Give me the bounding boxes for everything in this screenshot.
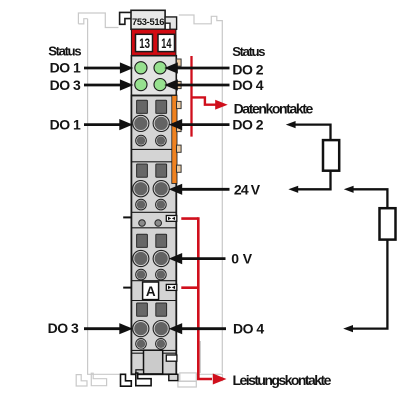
red power contact rail line (198, 217, 212, 379)
LED DO2 (154, 62, 166, 74)
terminal section 1 clamp openings (137, 100, 167, 113)
terminal number box 13 (136, 34, 153, 51)
svg-text:Status: Status (232, 44, 265, 59)
section 1 small openings (136, 135, 167, 146)
svg-text:Leistungskontakte: Leistungskontakte (233, 372, 332, 388)
resistor load 2 (380, 208, 396, 239)
svg-text:DO 4: DO 4 (233, 321, 264, 337)
svg-text:24 V: 24 V (234, 181, 261, 197)
ghost outline: left neighbor right edge (87, 19, 89, 375)
data contact tabs (177, 59, 182, 172)
red Leistungskontakte arrowhead (213, 374, 227, 385)
wire status DO2 (right) (178, 67, 230, 70)
red terminal number block (131, 29, 176, 55)
svg-text:DO 2: DO 2 (232, 62, 263, 78)
address box A (143, 282, 159, 300)
red Datenkontakte arrow (192, 97, 217, 104)
svg-text:DO 3: DO 3 (48, 320, 79, 336)
terminal section 3 clamp openings (137, 234, 167, 247)
load branch 1 wire from DO2 (295, 125, 331, 141)
LED DO3 (135, 79, 147, 91)
terminal DO2 wire entry (big circle right, section 1) (153, 115, 169, 131)
svg-text:A: A (146, 284, 156, 299)
terminal 24V wire entries (big circles, section 2) (133, 181, 170, 197)
orange bus strip (172, 96, 177, 184)
svg-text:Status: Status (48, 43, 81, 58)
load branch 2 wire from 24V (353, 189, 388, 208)
load branch 2 wire to DO4 (352, 240, 387, 329)
terminal section 2 clamp openings (137, 164, 167, 177)
section 4 small openings (136, 339, 167, 350)
red power contact line upper branch (181, 217, 198, 220)
wire status DO3 (left) (84, 84, 121, 87)
red power contact line lower branch (181, 286, 198, 289)
ghost outline: right neighbor module top (179, 15, 223, 373)
terminal DO1 wire entry (big circle left, section 1) (133, 115, 149, 131)
module label plate (131, 10, 165, 29)
wire 0V terminal (right) (182, 257, 226, 260)
wire status DO1 (left) (84, 67, 121, 70)
section 2 small openings (136, 199, 167, 210)
wire DO1 terminal (left) (84, 123, 120, 126)
svg-text:753-516: 753-516 (132, 16, 164, 27)
module top-left mounting tab (120, 12, 132, 24)
module top-right mounting tab (165, 17, 177, 29)
svg-text:DO 1: DO 1 (50, 117, 81, 133)
left mounting foot (121, 374, 132, 386)
wire DO3 terminal (left) (84, 327, 120, 330)
section 3 small openings (136, 269, 167, 280)
ghost outline: right neighbor foot (178, 341, 223, 387)
ghost outline: left neighbor foot (76, 373, 119, 386)
wire status DO4 (right) (178, 84, 230, 87)
resistor load 1 (323, 140, 339, 171)
power jumper contact icon (lower) (166, 284, 177, 290)
svg-text:DO 3: DO 3 (50, 77, 81, 93)
body divider lines (131, 149, 176, 353)
svg-text:DO 4: DO 4 (232, 77, 263, 93)
terminal DO3 / DO4 wire entries (big circles, section 4) (133, 321, 170, 337)
wire 24V terminal (right) (182, 188, 230, 191)
ghost outline: left neighbor module top (78, 13, 118, 28)
load branch 1 wire to 24V (298, 171, 331, 190)
LED DO4 (154, 79, 166, 91)
wire DO4 terminal (right) (182, 327, 226, 330)
center mounting foot (136, 373, 151, 386)
power jumper contact icon (upper) (166, 216, 177, 222)
rail lock block (144, 350, 163, 374)
jumper bore circles (139, 220, 162, 227)
svg-text:Datenkontakte: Datenkontakte (234, 100, 314, 116)
svg-text:DO 1: DO 1 (50, 59, 81, 75)
svg-text:0 V: 0 V (231, 251, 253, 267)
right mounting foot (169, 374, 178, 380)
svg-text:14: 14 (161, 36, 172, 51)
terminal 0V wire entries (big circles, section 3) (133, 250, 170, 266)
latch notch (166, 355, 177, 361)
terminal section 4 clamp openings (137, 303, 167, 316)
module body (131, 96, 176, 375)
left power jumper contact tick (upper) (123, 216, 131, 218)
terminal number box 14 (158, 34, 175, 51)
svg-text:DO 2: DO 2 (232, 117, 263, 133)
left power jumper contact tick (lower) (123, 287, 131, 289)
wire DO2 terminal (right) (182, 123, 230, 126)
rail lock step tab (136, 370, 144, 374)
LED panel (131, 56, 176, 96)
svg-text:13: 13 (139, 36, 150, 51)
LED DO1 (135, 62, 147, 74)
red data contact rail line (190, 56, 192, 137)
